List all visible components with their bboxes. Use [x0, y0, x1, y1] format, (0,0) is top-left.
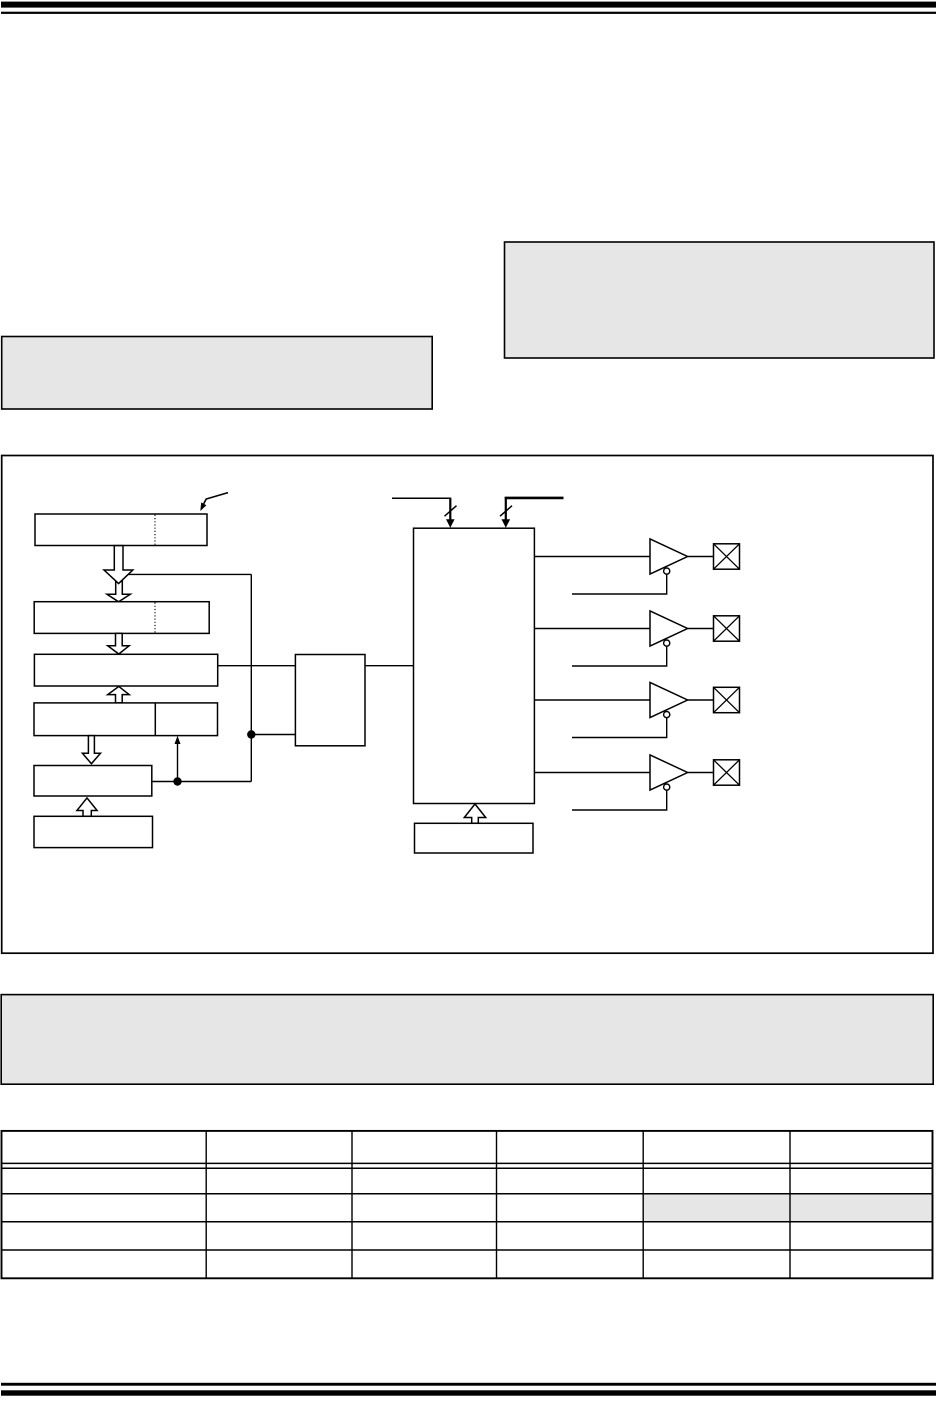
- mux block: [295, 655, 365, 746]
- feedback wire horizontal from big arrow: [128, 573, 251, 575]
- enable wire U2: [572, 646, 667, 666]
- bus input left: horizontal: [392, 497, 451, 499]
- figure frame: [2, 456, 933, 954]
- left gray note box: [2, 337, 433, 410]
- buffer U2: [650, 611, 688, 646]
- buffer U3: [650, 682, 688, 717]
- wire buffer 3 to pad 3: [688, 699, 714, 701]
- hollow arrow box4 to box3: [108, 686, 130, 703]
- hollow arrow box4 to box5: [82, 736, 100, 764]
- output channel 1: [534, 539, 739, 594]
- enable wire U1: [572, 574, 667, 594]
- table header double line: [2, 1162, 933, 1164]
- wire buffer 1 to pad 1: [688, 556, 714, 558]
- buffer U1: [650, 539, 688, 574]
- table column line 2: [351, 1131, 353, 1278]
- table column line 4: [642, 1131, 644, 1278]
- enable bubble U2: [664, 640, 670, 646]
- junction dot A: [247, 730, 255, 738]
- wire box5 feedback: [152, 781, 252, 783]
- output channel 4: [534, 755, 739, 810]
- block box5: [34, 766, 152, 797]
- control box below register block: [415, 823, 534, 853]
- wire register to buffer 3: [534, 699, 650, 701]
- output channel 2: [534, 611, 739, 666]
- table row line 2: [2, 1221, 933, 1223]
- table: [2, 1131, 933, 1278]
- double hollow arrow box1 to box2 (upper chevron): [107, 581, 130, 602]
- wire box3 to mux: [218, 665, 296, 667]
- block box2: [34, 602, 209, 634]
- junction dot B: [173, 777, 181, 785]
- double hollow arrow box1 to box2 (big arrow): [104, 546, 133, 584]
- hollow arrow control box to register block: [464, 804, 485, 823]
- wire junction to mux: [251, 734, 295, 736]
- bus input right: thick horizontal: [505, 497, 564, 500]
- block box1: [35, 514, 207, 546]
- block box4: [34, 703, 218, 736]
- wire register to buffer 1: [534, 556, 650, 558]
- table shaded cells: [643, 1194, 932, 1221]
- gray note band: [1, 995, 933, 1085]
- bus slash right: [500, 506, 512, 517]
- wire register to buffer 2: [534, 628, 650, 630]
- pad 2: [714, 616, 740, 641]
- enable bubble U1: [664, 568, 670, 574]
- feedback wire vertical: [250, 574, 252, 781]
- bus input right: vertical with arrowhead: [502, 497, 511, 528]
- pad 3: [714, 687, 740, 712]
- pad 1: [714, 544, 740, 569]
- block box3: [34, 654, 217, 686]
- enable wire U3: [572, 718, 667, 738]
- table row line 3: [2, 1249, 933, 1251]
- table column line 1: [205, 1131, 207, 1278]
- enable bubble U4: [664, 784, 670, 790]
- bus slash left: [445, 506, 457, 517]
- top thin rule: [1, 12, 936, 14]
- pad 4: [714, 760, 740, 785]
- block box6: [34, 816, 153, 847]
- right gray note box: [505, 242, 935, 358]
- hollow arrow box6 to box5: [77, 798, 97, 816]
- wire register to buffer 4: [534, 772, 650, 774]
- callout pointer arrow: [200, 493, 228, 511]
- bottom thin rule: [1, 1383, 936, 1386]
- enable bubble U3: [664, 712, 670, 718]
- buffer U4: [650, 755, 688, 790]
- enable wire U4: [572, 790, 667, 810]
- table row line 1: [2, 1193, 933, 1195]
- bottom thick rule: [1, 1390, 936, 1395]
- top thick rule: [1, 2, 936, 8]
- register big block: [414, 528, 535, 803]
- wire mux to register block: [365, 665, 414, 667]
- hollow arrow box2 to box3: [108, 633, 130, 654]
- bus input left: vertical with arrowhead: [446, 498, 455, 527]
- table column line 5: [789, 1131, 791, 1278]
- table outer border: [2, 1131, 933, 1278]
- wire buffer 4 to pad 4: [688, 772, 714, 774]
- wire buffer 2 to pad 2: [688, 628, 714, 630]
- arrow wire into box4 bottom: [175, 736, 181, 782]
- table column line 3: [496, 1131, 498, 1278]
- output channel 3: [534, 682, 739, 737]
